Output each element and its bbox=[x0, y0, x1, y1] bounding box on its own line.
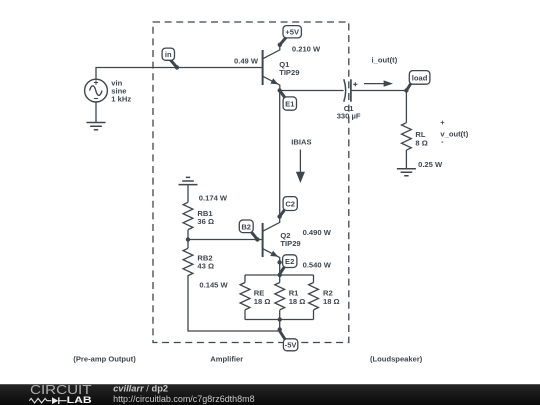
wire rail bottom to -5V junction bbox=[279, 320, 281, 332]
node C2 bbox=[277, 197, 297, 219]
wire RB2 bottom down and right to -5V junction bbox=[188, 275, 280, 331]
node E1 bbox=[278, 88, 297, 110]
resistor RB2 43ohm bbox=[183, 240, 193, 276]
CircuitLab logo bbox=[29, 382, 91, 405]
node +5V bbox=[278, 26, 302, 47]
wire RL bottom to ground bbox=[405, 150, 407, 169]
voltage source V1 vin bbox=[85, 79, 108, 102]
svg-text:cvillarr / dp2: cvillarr / dp2 bbox=[113, 384, 168, 394]
node E2 bbox=[277, 255, 297, 274]
footer bar bbox=[0, 384, 540, 405]
junction dots bbox=[186, 237, 282, 321]
wire resistor rail bottom bbox=[245, 319, 314, 321]
ground (under vin) bbox=[87, 123, 106, 130]
wire resistor rail top bbox=[245, 274, 314, 276]
ground (under RL) bbox=[397, 169, 416, 176]
svg-text:http://circuitlab.com/c7g8rz6d: http://circuitlab.com/c7g8rz6dth8m8 bbox=[113, 394, 255, 404]
wire load down to RL bbox=[405, 91, 407, 123]
vin label bbox=[111, 79, 131, 104]
resistor R2 18ohm bbox=[309, 275, 319, 320]
resistor R1 18ohm bbox=[275, 275, 285, 320]
resistor RL 8ohm bbox=[402, 123, 412, 150]
i_out(t) annotation arrow bbox=[364, 56, 398, 87]
svg-text:LAB: LAB bbox=[67, 395, 92, 405]
wire vin bottom to ground bbox=[95, 102, 97, 123]
amplifier dashed box bbox=[153, 22, 349, 343]
resistor RB1 36ohm bbox=[183, 185, 193, 240]
footer credits bbox=[113, 384, 255, 404]
wire vin top to Q1 base bbox=[96, 68, 263, 80]
wire E1 down to C2 bbox=[279, 91, 281, 217]
wire RB junction to Q2 base bbox=[188, 239, 263, 241]
wire capacitor to load bbox=[351, 90, 406, 92]
node load bbox=[404, 71, 430, 93]
node -5V bbox=[278, 327, 298, 351]
transistor Q2 TIP29 bbox=[263, 217, 280, 275]
IBIAS annotation arrow bbox=[291, 138, 311, 184]
section captions bbox=[73, 355, 422, 364]
capacitor C1 330uF bbox=[344, 79, 358, 101]
node in bbox=[162, 48, 179, 70]
wire E1 to capacitor bbox=[280, 90, 344, 92]
node B2 bbox=[239, 220, 259, 242]
resistor RE 18ohm bbox=[240, 275, 250, 320]
transistor Q1 TIP29 bbox=[263, 45, 280, 91]
ground (above RB1, flipped) bbox=[179, 177, 198, 184]
